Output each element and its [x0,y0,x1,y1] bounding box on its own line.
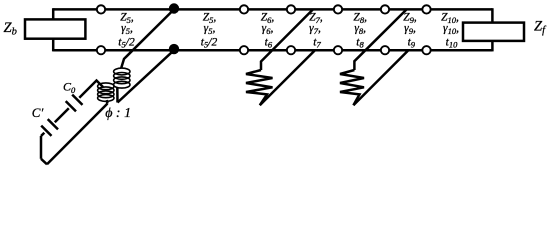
wire loop return diagonal [47,104,108,165]
impedance Zf box [463,23,524,41]
node open top 4 [334,5,342,13]
wire shunt 1 diagonal D1 [261,9,313,70]
resistor R2 zigzag [340,70,364,105]
wire right end connector [491,8,494,51]
wire top rail [53,8,492,11]
svg-text:C0: C0 [63,80,76,95]
node open top 6 [422,5,430,13]
wire between C' and C0 [55,108,69,122]
svg-text:t8: t8 [356,36,364,49]
wire left end connector [52,8,55,51]
svg-text:t5/2: t5/2 [118,36,135,49]
svg-text:t10: t10 [446,36,458,49]
node open bottom 1 [97,46,105,54]
wire from C0 to transformer primary [79,81,103,98]
wire primary bottom lead [106,100,109,104]
svg-text:t9: t9 [408,36,416,49]
wire loop corner segment [41,159,47,165]
transformer T1 primary winding (left coil) [98,83,114,102]
wire diagonal D1 from top node to transformer secondary [121,9,174,67]
node open bottom 2 [240,46,248,54]
node open top 2 [240,5,248,13]
node open bottom 3 [287,46,295,54]
wire shunt 2 diagonal D2 [353,50,408,105]
svg-text:Zb: Zb [4,20,17,38]
svg-text:ϕ : 1: ϕ : 1 [105,106,131,121]
transformer T1 secondary winding (right coil) [114,68,130,88]
wire bottom rail [53,49,492,52]
svg-text:t5/2: t5/2 [201,36,218,49]
node open bottom 6 [422,46,430,54]
capacitor C' plate 2 [48,119,58,129]
node filled bottom [169,44,179,54]
capacitor C0 plate 2 [72,95,82,105]
wire shunt 1 diagonal D2 [260,50,315,105]
wire loop left vertical [40,136,43,159]
node open top 1 [97,5,105,13]
svg-text:C′: C′ [32,105,44,120]
node open top 5 [381,5,389,13]
wire secondary bottom lead [116,88,119,103]
wire shunt 2 diagonal D1 [354,9,406,70]
node open bottom 4 [334,46,342,54]
impedance Zb box [25,19,85,38]
node open top 3 [287,5,295,13]
wire diagonal D2 from transformer secondary to bottom node [118,50,175,102]
node open bottom 5 [381,46,389,54]
capacitor C' plate 1 [41,126,51,136]
svg-text:t6: t6 [265,36,273,49]
wire capacitor branch lead lower [41,133,44,136]
capacitor C0 plate 1 [66,101,76,111]
svg-text:t7: t7 [313,36,321,49]
node filled top [169,3,179,13]
svg-text:Zf: Zf [534,19,547,37]
resistor R1 zigzag [246,70,273,105]
